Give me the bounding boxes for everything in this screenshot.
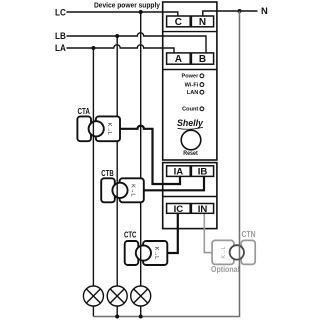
divider C/N - A/B xyxy=(163,31,217,33)
device upper box xyxy=(163,2,217,160)
wire IN to CTN xyxy=(204,213,212,252)
svg-text:LC: LC xyxy=(55,6,66,17)
node LB xyxy=(115,34,119,38)
wire CTC to IC xyxy=(168,213,178,253)
CT B body left xyxy=(101,178,115,202)
CT A body left xyxy=(77,116,91,141)
divider IA/IB - IC/IN xyxy=(163,196,217,198)
wire LC horizontal xyxy=(67,12,178,17)
svg-text:Optional: Optional xyxy=(211,265,240,274)
svg-text:K→L: K→L xyxy=(153,247,159,259)
CT B body right xyxy=(120,178,144,202)
svg-text:A: A xyxy=(175,54,182,65)
lamp B xyxy=(107,286,127,306)
CT A body right xyxy=(96,116,120,141)
terminal N xyxy=(191,16,213,27)
CT C body right xyxy=(143,241,167,265)
svg-text:Count: Count xyxy=(182,107,198,113)
svg-text:IC: IC xyxy=(174,204,184,215)
terminal C xyxy=(167,16,191,27)
CT B circle xyxy=(112,183,127,198)
svg-text:N: N xyxy=(261,5,268,16)
svg-text:IA: IA xyxy=(174,167,184,178)
terminal IC xyxy=(167,204,191,214)
node LA xyxy=(91,46,95,50)
svg-text:Wi-Fi: Wi-Fi xyxy=(185,83,199,89)
reset button xyxy=(181,130,201,150)
device lower box xyxy=(163,163,217,229)
node N xyxy=(238,9,242,13)
CT N body right xyxy=(241,240,255,264)
svg-text:N: N xyxy=(199,17,206,28)
CT C body left xyxy=(125,241,139,265)
node lamp B xyxy=(115,315,119,319)
svg-text:C: C xyxy=(175,17,182,28)
wire LC vertical xyxy=(140,12,142,317)
wire LA horizontal xyxy=(67,45,175,54)
terminal IA xyxy=(167,166,191,177)
svg-text:CTC: CTC xyxy=(124,230,137,239)
terminal IB xyxy=(191,166,213,177)
svg-text:CTA: CTA xyxy=(78,107,91,116)
wire N rail xyxy=(93,11,239,317)
terminal B xyxy=(191,53,213,64)
divider A/B bottom xyxy=(163,69,217,71)
node LC xyxy=(139,10,143,14)
lamp C xyxy=(131,286,151,306)
wire LB vertical xyxy=(116,36,118,317)
svg-text:LB: LB xyxy=(55,30,66,41)
svg-text:IN: IN xyxy=(198,204,208,215)
svg-text:LA: LA xyxy=(55,42,66,53)
CT N body left xyxy=(212,240,234,264)
svg-text:CTN: CTN xyxy=(242,230,256,239)
svg-text:Power: Power xyxy=(182,74,200,80)
lamp A xyxy=(83,286,103,306)
CT A circle xyxy=(89,121,104,136)
wire N top xyxy=(203,11,258,17)
svg-text:LAN: LAN xyxy=(187,90,199,96)
terminal A xyxy=(167,53,191,64)
wire CTB to IB xyxy=(144,176,204,190)
svg-text:Shelly: Shelly xyxy=(177,118,204,128)
terminal IN xyxy=(191,204,213,214)
CT N circle xyxy=(230,245,244,259)
svg-text:CTB: CTB xyxy=(101,169,114,178)
svg-text:K→L: K→L xyxy=(106,123,112,135)
CT C wire through circle xyxy=(140,246,142,261)
CT A wire through circle xyxy=(92,121,94,136)
wire LA vertical xyxy=(92,48,94,317)
CT C circle xyxy=(136,245,151,260)
wire CTA to IA xyxy=(120,126,180,184)
svg-text:K→L: K→L xyxy=(130,184,136,196)
svg-text:Device power supply: Device power supply xyxy=(94,1,160,10)
svg-text:B: B xyxy=(199,54,206,65)
wire LB horizontal xyxy=(67,33,207,54)
svg-text:K→L: K→L xyxy=(221,246,227,258)
svg-text:IB: IB xyxy=(198,167,208,178)
CT N wire through circle xyxy=(239,245,241,259)
node lamp C xyxy=(139,315,143,319)
CT B wire through circle xyxy=(116,183,118,198)
svg-text:Reset: Reset xyxy=(183,150,198,157)
